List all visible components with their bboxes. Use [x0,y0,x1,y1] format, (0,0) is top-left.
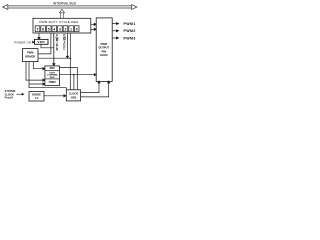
output control logic box [96,18,112,82]
fosc source label [5,89,16,99]
driver wire to clock box [29,84,66,90]
svg-text:7: 7 [37,27,39,31]
pin output 1 [112,23,118,25]
wire register down to driver line [66,33,68,58]
svg-text:PWM1: PWM1 [124,22,136,26]
VS box [35,39,49,44]
wire register down to VS box [38,33,40,40]
riser clock to output logic (inner) [81,81,101,93]
svg-text:PWM2: PWM2 [124,29,136,33]
register stack PR2 / comparator / TMR2 [45,66,60,86]
power arrow into VS box [32,41,35,43]
svg-text:CLOCK: CLOCK [69,92,78,96]
svg-text:PIN: PIN [102,49,106,53]
svg-text:4: 4 [53,27,55,31]
svg-text:TMR2: TMR2 [49,80,57,84]
driver wire to TMR2 (upper) [26,62,45,82]
svg-text:INTERNAL BUS: INTERNAL BUS [53,2,76,6]
svg-text:2: 2 [65,27,67,31]
vertical bus to PR2 [53,33,55,66]
internal data bus [3,5,137,10]
svg-text:LOGIC: LOGIC [100,53,108,57]
fosc arrow to divide box [16,93,24,95]
svg-text:Fosc/4: Fosc/4 [5,96,14,100]
wire comparator to output logic [60,74,97,76]
svg-text:DIVIDE: DIVIDE [32,93,41,97]
pin output 2 [112,30,118,32]
wire driver to node A [38,57,70,59]
svg-text:OUTPUT: OUTPUT [98,46,109,50]
svg-text:5: 5 [48,27,50,31]
wire PR2 to node C [60,68,78,90]
wire register to output logic (lower) [91,28,97,30]
driver wire to TMR2 (lower) [29,62,45,86]
svg-text:0: 0 [76,27,78,31]
svg-text:PR2: PR2 [50,66,56,70]
wire node B down to clock box [73,75,75,90]
svg-text:PWM3: PWM3 [124,36,136,40]
svg-text:6: 6 [42,27,44,31]
svg-text:PWM: PWM [27,51,33,55]
svg-text:1: 1 [70,27,72,31]
svg-text:GEN: GEN [71,95,77,99]
register bit cells [35,26,79,32]
wire register to output logic (upper) [91,23,97,25]
driver wire to PR2 [33,62,45,70]
long wire register to clock box [69,33,71,90]
bus connector arrow [59,9,64,18]
PWM driver box [23,49,39,62]
svg-text:POWER ON: POWER ON [14,40,31,44]
register box PWM duty cycle [33,18,91,33]
junction dot node A [70,57,72,59]
svg-text:1:4: 1:4 [35,96,39,100]
wire VS box to vertical bus [41,44,54,48]
wire register drop to driver box [38,33,51,54]
svg-text:VDD: VDD [37,40,45,44]
clock box [66,90,80,101]
svg-text:L: L [63,47,65,51]
divide box [29,92,44,102]
svg-text:PWM: PWM [101,42,107,46]
svg-text:DRIVER: DRIVER [25,54,35,58]
pin output 3 [112,37,118,39]
svg-text:PWM DUTY CYCLE REG: PWM DUTY CYCLE REG [39,20,79,24]
svg-text:3: 3 [59,27,61,31]
svg-text:MUX: MUX [50,77,55,79]
wire divide to clock box [44,95,66,97]
junction dot node B [73,74,75,76]
riser clock to output logic (outer) [81,81,110,97]
